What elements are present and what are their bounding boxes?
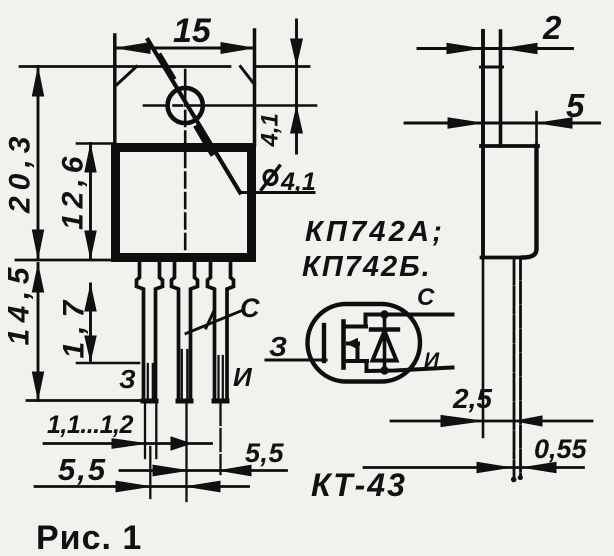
side view tab left edge / body left edge	[481, 31, 485, 256]
dimension 2,5	[391, 420, 592, 423]
side view lead	[513, 258, 516, 479]
svg-text:2: 2	[542, 9, 562, 46]
transistor drain stub	[346, 325, 367, 329]
side view body top edge	[481, 144, 538, 148]
transistor source stub	[346, 359, 368, 363]
svg-text:4,1: 4,1	[257, 113, 284, 147]
wire gate lead	[266, 359, 326, 362]
svg-text:12,6: 12,6	[57, 152, 90, 230]
tab chamfer left	[117, 67, 137, 85]
svg-text:Рис. 1: Рис. 1	[36, 519, 142, 556]
transistor front tab right edge	[253, 30, 257, 145]
dimension 5,5 left (leads 1-2 pitch)	[35, 485, 249, 488]
svg-text:15: 15	[173, 12, 212, 50]
transistor front tab left edge	[113, 35, 117, 145]
lead 3 (И) outline	[208, 261, 215, 401]
dimension 1,1...1,2	[44, 442, 212, 445]
mounting hole	[168, 88, 203, 123]
wire leader to С label	[186, 311, 242, 334]
dimension 15	[115, 47, 255, 50]
side view body right edge	[523, 146, 537, 258]
svg-text:С: С	[417, 284, 435, 311]
side view tab right edge	[499, 31, 503, 146]
svg-text:4,1: 4,1	[280, 168, 316, 196]
tab chamfer right	[241, 67, 255, 85]
svg-text:1,1...1,2: 1,1...1,2	[47, 411, 133, 439]
dimension 12,6	[89, 144, 92, 260]
svg-text:КП742Б.: КП742Б.	[302, 251, 432, 283]
svg-text:14,5: 14,5	[3, 261, 36, 345]
dimension 0,55	[364, 466, 584, 469]
node junction source	[380, 366, 388, 374]
dimension 4,1 vertical	[295, 20, 298, 153]
diode D1 body diode	[383, 315, 387, 372]
dimension 20,3	[37, 67, 40, 260]
node hole vertical centerline	[184, 70, 187, 258]
dimension 14,5	[37, 264, 40, 401]
svg-text:КП742А;: КП742А;	[305, 216, 445, 248]
svg-text:1,7: 1,7	[58, 293, 91, 359]
side view body bottom edge	[482, 256, 524, 260]
dimension 1,7	[89, 284, 92, 362]
node lead 2 centerline extension	[185, 403, 187, 501]
node lead 1 centerline extension	[149, 447, 151, 498]
wire source to И	[367, 368, 453, 372]
node junction drain	[380, 310, 388, 318]
lead 1 (З) outline	[137, 261, 144, 401]
hole diameter symbol	[263, 169, 279, 186]
transistor body stub with arrow	[348, 342, 358, 346]
transistor gate electrode	[322, 325, 326, 361]
dimension 5 (body thickness)	[405, 122, 600, 125]
op-amp MOSFET symbol outline	[308, 304, 421, 382]
svg-text:5: 5	[566, 87, 585, 124]
svg-text:5,5: 5,5	[58, 452, 107, 487]
node lead 3 centerline extension	[219, 403, 221, 474]
svg-text:20,3: 20,3	[4, 131, 37, 214]
dimension 5,5 right (leads 2-3 pitch)	[120, 469, 287, 472]
dimension 2 (tab thickness)	[418, 47, 573, 50]
svg-text:З: З	[269, 331, 287, 362]
wire top extension line y=66	[20, 65, 230, 68]
svg-text:И: И	[424, 349, 440, 372]
svg-text:5,5: 5,5	[245, 438, 285, 468]
svg-text:З: З	[119, 364, 136, 394]
transistor channel (dashed)	[341, 322, 346, 368]
node hole horizontal centerline	[144, 104, 316, 107]
side view tab top edge	[481, 66, 503, 69]
transistor front body outline	[116, 148, 252, 258]
wire drain to C	[366, 313, 453, 317]
svg-text:С: С	[240, 293, 260, 323]
lead 2 (С) outline	[172, 261, 179, 401]
svg-text:0,55: 0,55	[534, 434, 588, 464]
svg-text:2,5: 2,5	[452, 383, 492, 414]
svg-text:И: И	[233, 362, 253, 392]
svg-text:КТ-43: КТ-43	[311, 467, 407, 503]
wire leader to hole diameter label	[148, 40, 240, 193]
